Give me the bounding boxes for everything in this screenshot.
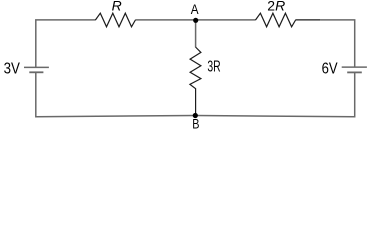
svg-text:3R: 3R xyxy=(207,58,220,75)
svg-text:R: R xyxy=(112,0,122,13)
svg-text:A: A xyxy=(191,1,199,17)
svg-text:2: 2 xyxy=(267,0,275,13)
svg-text:B: B xyxy=(192,115,199,131)
svg-text:3V: 3V xyxy=(4,60,21,77)
svg-text:R: R xyxy=(275,0,285,13)
svg-text:6V: 6V xyxy=(322,60,338,77)
